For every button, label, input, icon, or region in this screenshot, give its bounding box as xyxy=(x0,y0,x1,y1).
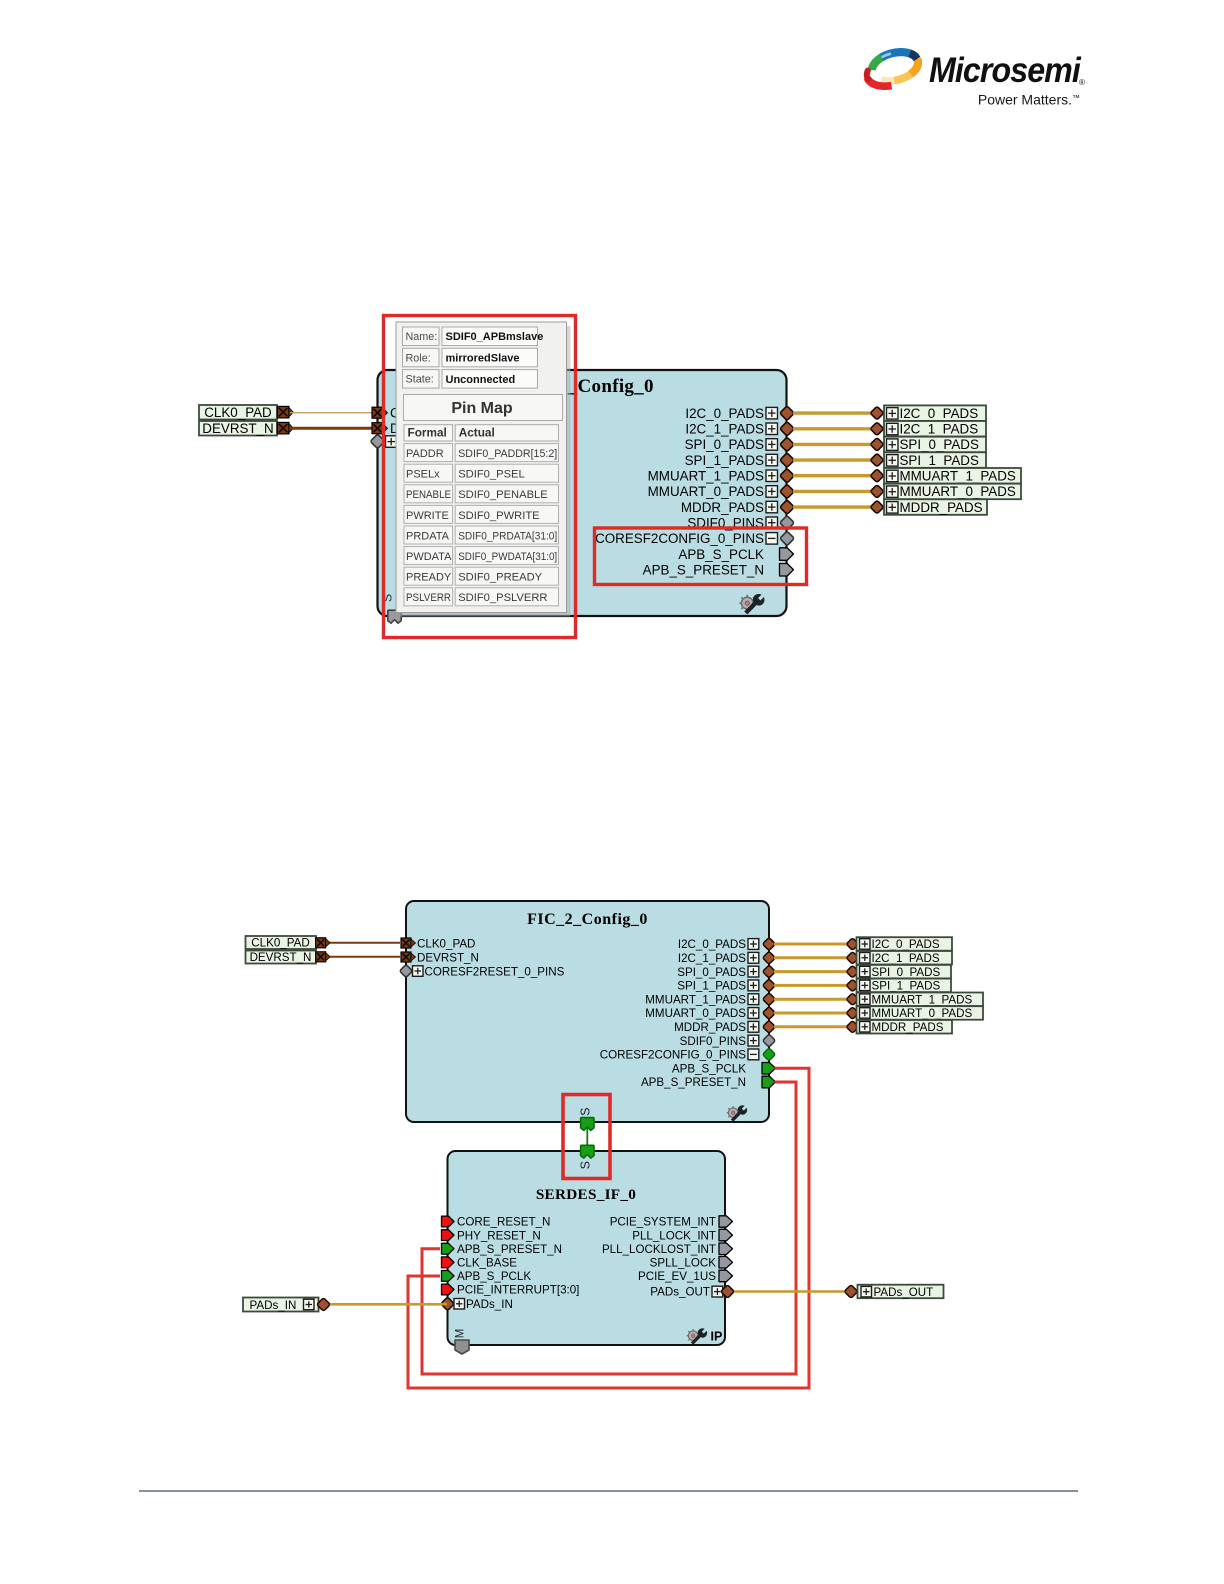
port MDDR_PADS (top, external output label) xyxy=(870,499,987,515)
svg-text:SDIF0_PINS: SDIF0_PINS xyxy=(680,1035,747,1048)
svg-text:DEVRST_N: DEVRST_N xyxy=(250,951,312,964)
svg-text:M: M xyxy=(455,1329,467,1339)
pin APB_S_PCLK (FIC_2 bottom right) xyxy=(672,1062,776,1075)
pin DEVRST_N on FIC_2 edge (bottom) xyxy=(401,952,479,965)
pin SPI_0_PADS (FIC_2 bottom right) xyxy=(677,965,775,979)
svg-text:FIC_2_Config_0: FIC_2_Config_0 xyxy=(527,911,648,928)
pin CORESF2RESET_0_PINS (top, gray diamond) xyxy=(370,434,560,449)
pin APB_S_PRESET_N (FIC_2 bottom right) xyxy=(641,1076,776,1089)
pin SPI_1_PADS (FIC_2 bottom right) xyxy=(677,979,775,993)
wire PADs_OUT (orange bus) xyxy=(734,1290,845,1293)
wire PADs_IN (orange bus) xyxy=(330,1303,447,1306)
svg-text:CLK_BASE: CLK_BASE xyxy=(457,1257,517,1270)
svg-text:Role:: Role: xyxy=(406,352,431,364)
svg-text:I2C_1_PADS: I2C_1_PADS xyxy=(678,952,746,965)
pin CORE_RESET_N (SERDES left) xyxy=(442,1216,551,1229)
port I2C_1_PADS (top, external output label) xyxy=(870,421,986,437)
svg-text:APB_S_PRESET_N: APB_S_PRESET_N xyxy=(643,563,764,578)
svg-text:I2C_1_PADS: I2C_1_PADS xyxy=(872,952,940,965)
wire MDDR_PADS bus (top) xyxy=(793,505,871,508)
svg-text:Actual: Actual xyxy=(459,426,495,440)
svg-text:®: ® xyxy=(1079,78,1085,87)
svg-text:IP: IP xyxy=(711,1330,723,1344)
port SPI_1_PADS (bottom, external output label) xyxy=(846,979,951,993)
svg-text:I2C_0_PADS: I2C_0_PADS xyxy=(685,406,764,421)
red annotation box around CORESF2CONFIG pins (top) xyxy=(595,528,807,585)
svg-text:APB_S_PCLK: APB_S_PCLK xyxy=(678,547,764,562)
wire DEVRST_N (bottom) xyxy=(330,956,400,958)
svg-text:PHY_RESET_N: PHY_RESET_N xyxy=(457,1229,541,1242)
svg-text:State:: State: xyxy=(406,374,434,386)
svg-text:APB_S_PCLK: APB_S_PCLK xyxy=(457,1270,531,1283)
pin PHY_RESET_N (SERDES left) xyxy=(442,1229,541,1242)
svg-text:I2C_1_PADS: I2C_1_PADS xyxy=(685,422,764,437)
pin DEVRST_N on block edge (top) xyxy=(372,421,461,436)
wire CLK0_PAD to block (top) xyxy=(290,412,372,414)
tooltip SDIF0_APBmslave (panel) xyxy=(396,322,571,617)
block SERDES_IF_0 xyxy=(448,1151,726,1345)
wire I2C_1_PADS bus (bottom) xyxy=(774,956,848,959)
red wire APB_S_PCLK (FIC_2 to SERDES) xyxy=(408,1068,809,1388)
svg-text:PSELx: PSELx xyxy=(406,469,440,481)
svg-text:PADs_OUT: PADs_OUT xyxy=(650,1286,710,1299)
pin SPI_0_PADS (top block right) xyxy=(685,437,795,452)
svg-text:I2C_0_PADS: I2C_0_PADS xyxy=(678,938,746,951)
pin PCIE_SYSTEM_INT (SERDES right) xyxy=(610,1216,733,1229)
port MMUART_1_PADS (bottom, external output label) xyxy=(846,993,983,1007)
wire MMUART_0_PADS bus (bottom) xyxy=(774,1012,848,1015)
wire MMUART_1_PADS bus (bottom) xyxy=(774,998,848,1001)
port I2C_1_PADS (bottom, external output label) xyxy=(846,951,952,965)
red wire APB_S_PRESET_N (FIC_2 to SERDES) xyxy=(422,1082,796,1374)
svg-text:S: S xyxy=(579,1161,593,1169)
svg-text:SDIF0_PWDATA[31:0]: SDIF0_PWDATA[31:0] xyxy=(458,551,557,563)
svg-text:I2C_1_PADS: I2C_1_PADS xyxy=(900,422,979,437)
svg-text:I2C_0_PADS: I2C_0_PADS xyxy=(900,406,979,421)
pin APB_S_PCLK (SERDES left) xyxy=(442,1270,532,1283)
pin I2C_1_PADS (FIC_2 bottom right) xyxy=(678,951,776,965)
pin I2C_1_PADS (top block right) xyxy=(685,422,794,437)
svg-text:APB_S_PRESET_N: APB_S_PRESET_N xyxy=(641,1076,746,1089)
svg-text:PRDATA: PRDATA xyxy=(406,530,450,542)
svg-text:MMUART_1_PADS: MMUART_1_PADS xyxy=(872,993,973,1006)
wire SPI_1_PADS bus (bottom) xyxy=(774,984,848,987)
svg-text:SDIF0_PENABLE: SDIF0_PENABLE xyxy=(458,489,548,501)
pin I2C_0_PADS (top block right) xyxy=(685,406,794,421)
pin PCIE_INTERRUPT[3:0] (SERDES left) xyxy=(442,1284,580,1297)
port DEVRST_N (top, external input label) xyxy=(199,421,293,436)
footer rule xyxy=(139,1490,1078,1492)
svg-text:MDDR_PADS: MDDR_PADS xyxy=(681,500,764,515)
pin PCIE_EV_1US (SERDES right) xyxy=(638,1270,732,1283)
pin MMUART_0_PADS (FIC_2 bottom right) xyxy=(645,1006,775,1020)
port MMUART_1_PADS (top, external output label) xyxy=(870,468,1021,484)
pin MMUART_1_PADS (FIC_2 bottom right) xyxy=(645,993,775,1007)
pin CORESF2RESET_0_PINS (bottom, gray diamond) xyxy=(399,964,564,978)
socket S (top block, gray flag at bottom-left) xyxy=(381,594,402,623)
svg-text:CORESF2CONFIG_0_PINS: CORESF2CONFIG_0_PINS xyxy=(595,531,764,546)
svg-text:SDIF0_PSEL: SDIF0_PSEL xyxy=(458,469,525,481)
svg-text:CLK0_PAD: CLK0_PAD xyxy=(204,405,272,420)
svg-text:SDIF0_PREADY: SDIF0_PREADY xyxy=(458,572,542,584)
port CLK0_PAD (top, external input label) xyxy=(199,405,293,420)
svg-text:SPI_0_PADS: SPI_0_PADS xyxy=(677,966,746,979)
svg-text:SPI_0_PADS: SPI_0_PADS xyxy=(900,437,979,452)
pin SDIF0_PINS (FIC_2 bottom right) xyxy=(680,1034,776,1048)
svg-text:PADs_OUT: PADs_OUT xyxy=(874,1286,934,1299)
pin CORESF2CONFIG_0_PINS (top block right) xyxy=(595,531,794,546)
pin CLK0_PAD on FIC_2 edge (bottom) xyxy=(401,938,475,951)
port MDDR_PADS (bottom, external output label) xyxy=(846,1020,952,1034)
svg-text:Microsemi: Microsemi xyxy=(929,52,1081,91)
pin MDDR_PADS (FIC_2 bottom right) xyxy=(674,1020,775,1034)
pin CORESF2CONFIG_0_PINS (FIC_2 bottom right) xyxy=(600,1048,776,1062)
pin APB_S_PRESET_N (SERDES left) xyxy=(442,1243,563,1256)
wire SPI_0_PADS bus (top) xyxy=(793,443,871,446)
wrench icon (FIC_2 bottom) xyxy=(727,1106,747,1122)
svg-text:SDIF0_PSLVERR: SDIF0_PSLVERR xyxy=(458,592,547,604)
wire DEVRST_N to block (top) xyxy=(290,427,372,430)
svg-text:PADs_IN: PADs_IN xyxy=(250,1299,297,1312)
port PADs_OUT (external output label) xyxy=(844,1285,943,1299)
svg-text:PSLVERR: PSLVERR xyxy=(406,592,451,604)
pin APB_S_PCLK (top block right) xyxy=(678,547,793,562)
pin APB_S_PRESET_N (top block right) xyxy=(643,563,794,578)
pin MDDR_PADS (top block right) xyxy=(681,500,794,515)
port MMUART_0_PADS (bottom, external output label) xyxy=(846,1006,983,1020)
pin CLK_BASE (SERDES left) xyxy=(442,1257,518,1270)
port CLK0_PAD (bottom, external input label) xyxy=(246,936,331,950)
svg-text:SDIF0_PRDATA[31:0]: SDIF0_PRDATA[31:0] xyxy=(458,530,557,542)
tooltip pin map table xyxy=(404,395,563,606)
pin PLL_LOCK_INT (SERDES right) xyxy=(632,1229,732,1242)
svg-text:PADDR: PADDR xyxy=(406,448,444,460)
svg-text:MDDR_PADS: MDDR_PADS xyxy=(674,1021,746,1034)
svg-text:MMUART_0_PADS: MMUART_0_PADS xyxy=(872,1007,973,1020)
port PADs_IN (external input label) xyxy=(243,1298,330,1312)
svg-text:SPI_1_PADS: SPI_1_PADS xyxy=(677,980,746,993)
red annotation box around tooltip xyxy=(384,316,576,638)
svg-text:SDIF0_APBmslave: SDIF0_APBmslave xyxy=(446,331,544,343)
svg-text:PLL_LOCKLOST_INT: PLL_LOCKLOST_INT xyxy=(602,1243,716,1256)
Microsemi logo mark xyxy=(867,52,918,86)
svg-text:CLK0_PAD: CLK0_PAD xyxy=(251,937,309,950)
svg-text:MMUART_0_PADS: MMUART_0_PADS xyxy=(648,484,764,499)
pin I2C_0_PADS (FIC_2 bottom right) xyxy=(678,937,776,951)
socket S on FIC_2 bottom edge xyxy=(579,1108,595,1131)
port SPI_1_PADS (top, external output label) xyxy=(870,452,986,468)
svg-text:MMUART_1_PADS: MMUART_1_PADS xyxy=(900,469,1016,484)
svg-text:MMUART_0_PADS: MMUART_0_PADS xyxy=(645,1007,746,1020)
pin MMUART_1_PADS (top block right) xyxy=(648,468,795,483)
svg-text:CORESF2RESET_0_PINS: CORESF2RESET_0_PINS xyxy=(425,966,565,979)
pin CLK0_PAD on block edge (top) xyxy=(372,406,458,421)
svg-text:PWDATA: PWDATA xyxy=(406,551,452,563)
svg-text:Pin Map: Pin Map xyxy=(451,400,513,417)
svg-text:PADs_IN: PADs_IN xyxy=(466,1298,513,1311)
svg-text:SPLL_LOCK: SPLL_LOCK xyxy=(650,1257,717,1270)
pin PLL_LOCKLOST_INT (SERDES right) xyxy=(602,1243,733,1256)
port SPI_0_PADS (top, external output label) xyxy=(870,437,986,453)
wire MMUART_1_PADS bus (top) xyxy=(793,474,871,477)
pin SPLL_LOCK (SERDES right) xyxy=(650,1257,733,1270)
wrench icon (top block) xyxy=(739,594,764,614)
wrench icon + IP (SERDES) xyxy=(687,1329,723,1345)
svg-text:CLK0_PAD: CLK0_PAD xyxy=(417,938,475,951)
port I2C_0_PADS (bottom, external output label) xyxy=(846,937,952,951)
svg-text:Power Matters.™: Power Matters.™ xyxy=(978,92,1080,108)
svg-text:SDIF0_PWRITE: SDIF0_PWRITE xyxy=(458,510,539,522)
svg-text:PCIE_INTERRUPT[3:0]: PCIE_INTERRUPT[3:0] xyxy=(457,1284,579,1297)
port I2C_0_PADS (top, external output label) xyxy=(870,405,986,421)
svg-text:MDDR_PADS: MDDR_PADS xyxy=(900,500,983,515)
wire MMUART_0_PADS bus (top) xyxy=(793,490,871,493)
svg-text:S: S xyxy=(579,1108,593,1116)
svg-text:PENABLE: PENABLE xyxy=(406,489,451,501)
green wire between S sockets xyxy=(586,1128,588,1148)
svg-text:SPI_1_PADS: SPI_1_PADS xyxy=(900,453,979,468)
block FIC_2_Config_0 (top diagram, partially covered by tooltip) xyxy=(378,370,787,616)
socket M on SERDES bottom edge xyxy=(455,1329,470,1354)
wire MDDR_PADS bus (bottom) xyxy=(774,1025,848,1028)
svg-text:PREADY: PREADY xyxy=(406,572,452,584)
wire CLK0_PAD (bottom) xyxy=(330,942,400,944)
svg-text:Unconnected: Unconnected xyxy=(446,374,516,386)
svg-text:PLL_LOCK_INT: PLL_LOCK_INT xyxy=(632,1229,716,1242)
svg-text:CORESF2CONFIG_0_PINS: CORESF2CONFIG_0_PINS xyxy=(600,1049,747,1062)
svg-text:PWRITE: PWRITE xyxy=(406,510,449,522)
svg-text:SPI_0_PADS: SPI_0_PADS xyxy=(872,966,941,979)
svg-text:SPI_0_PADS: SPI_0_PADS xyxy=(685,437,764,452)
svg-text:I2C_0_PADS: I2C_0_PADS xyxy=(872,938,940,951)
port SPI_0_PADS (bottom, external output label) xyxy=(846,965,951,979)
block FIC_2_Config_0 (bottom diagram) xyxy=(406,901,769,1122)
svg-text:MMUART_1_PADS: MMUART_1_PADS xyxy=(648,469,764,484)
svg-text:PCIE_EV_1US: PCIE_EV_1US xyxy=(638,1270,716,1283)
svg-text:APB_S_PRESET_N: APB_S_PRESET_N xyxy=(457,1243,562,1256)
wire I2C_1_PADS bus (top) xyxy=(793,427,871,430)
pin SDIF0_PINS (top block right) xyxy=(687,515,794,530)
pin PADs_IN (SERDES left) xyxy=(441,1297,513,1311)
svg-text:MMUART_0_PADS: MMUART_0_PADS xyxy=(900,484,1016,499)
wire I2C_0_PADS bus (bottom) xyxy=(774,943,848,946)
Microsemi wordmark xyxy=(929,52,1081,91)
pin SPI_1_PADS (top block right) xyxy=(685,453,795,468)
svg-text:CORE_RESET_N: CORE_RESET_N xyxy=(457,1216,550,1229)
port DEVRST_N (bottom, external input label) xyxy=(246,951,331,965)
wire I2C_0_PADS bus (top) xyxy=(793,411,871,414)
wire SPI_0_PADS bus (bottom) xyxy=(774,970,848,973)
svg-text:DEVRST_N: DEVRST_N xyxy=(417,952,479,965)
svg-text:Name:: Name: xyxy=(406,331,438,343)
pin PADs_OUT (SERDES right) xyxy=(650,1285,734,1299)
svg-text:SERDES_IF_0: SERDES_IF_0 xyxy=(536,1186,636,1203)
svg-text:MDDR_PADS: MDDR_PADS xyxy=(872,1021,944,1034)
svg-text:Formal: Formal xyxy=(408,426,447,440)
socket S on SERDES top edge xyxy=(579,1145,595,1169)
svg-text:MMUART_1_PADS: MMUART_1_PADS xyxy=(645,993,746,1006)
wire SPI_1_PADS bus (top) xyxy=(793,458,871,461)
port MMUART_0_PADS (top, external output label) xyxy=(870,484,1021,500)
svg-text:SPI_1_PADS: SPI_1_PADS xyxy=(872,980,941,993)
pin MMUART_0_PADS (top block right) xyxy=(648,484,795,499)
svg-text:mirroredSlave: mirroredSlave xyxy=(446,353,520,365)
svg-text:APB_S_PCLK: APB_S_PCLK xyxy=(672,1062,746,1075)
red annotation box around S sockets xyxy=(563,1095,610,1179)
svg-text:PCIE_SYSTEM_INT: PCIE_SYSTEM_INT xyxy=(610,1216,716,1229)
svg-text:DEVRST_N: DEVRST_N xyxy=(202,421,273,436)
svg-text:SDIF0_PADDR[15:2]: SDIF0_PADDR[15:2] xyxy=(458,448,557,460)
svg-text:SPI_1_PADS: SPI_1_PADS xyxy=(685,453,764,468)
